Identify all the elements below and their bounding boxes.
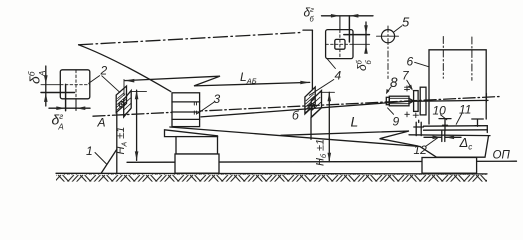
indicator stand 10 bbox=[439, 119, 451, 131]
svg-text:НА ±1: НА ±1 bbox=[115, 127, 129, 155]
guideway break fold upper bbox=[281, 131, 418, 146]
leader 2 bbox=[89, 76, 120, 93]
svg-text:8: 8 bbox=[390, 75, 398, 90]
svg-text:7: 7 bbox=[402, 69, 410, 83]
dim delta-A-vert bbox=[44, 66, 48, 106]
delta-c offset ticks bbox=[442, 131, 445, 142]
faceplate bbox=[420, 87, 426, 115]
svg-text:L: L bbox=[351, 114, 359, 130]
target A plate back bbox=[124, 91, 132, 118]
leader 1 bbox=[95, 153, 107, 165]
leader 11 bbox=[456, 114, 462, 125]
test mandrel 8 bbox=[386, 96, 413, 106]
telescope base on ground bbox=[175, 154, 219, 173]
bridge straightedge bar bbox=[424, 126, 488, 133]
clamp mark above flange bbox=[405, 86, 410, 91]
telescope 3 body bbox=[172, 93, 200, 127]
optical axis dash-dot bbox=[93, 97, 500, 117]
machine foundation block bbox=[422, 158, 477, 174]
cross of mandrel axis in view bbox=[344, 16, 370, 42]
target B plate back bbox=[311, 91, 321, 118]
bridge left bracket bbox=[414, 120, 424, 135]
leader 7 bbox=[407, 80, 413, 91]
svg-text:Δс: Δс bbox=[459, 135, 473, 152]
stub to vertical bbox=[303, 29, 312, 31]
leader 12 bbox=[426, 138, 438, 146]
L_AB dimension line with break bbox=[125, 76, 310, 86]
dim delta-B-vert right bbox=[364, 22, 368, 54]
svg-text:А: А bbox=[97, 116, 106, 130]
clamp mark below cone bbox=[405, 112, 410, 117]
target B plate front bbox=[305, 87, 315, 114]
svg-text:12: 12 bbox=[414, 143, 428, 157]
svg-text:δбА: δбА bbox=[27, 70, 48, 84]
dim H_B bbox=[320, 92, 335, 161]
headstock centerline 2 bbox=[471, 37, 473, 80]
svg-text:δгА: δгА bbox=[52, 112, 64, 132]
machine bed bbox=[409, 135, 490, 157]
dim H_A bbox=[130, 90, 146, 160]
leveling wedge under telescope bbox=[165, 130, 218, 137]
sight line bbox=[201, 100, 488, 117]
target A plate front bbox=[116, 86, 126, 113]
spindle end tick bbox=[485, 94, 487, 102]
svg-text:Нб ±1: Нб ±1 bbox=[315, 139, 329, 166]
dim delta-B-horiz top bbox=[322, 14, 374, 18]
svg-text:9: 9 bbox=[393, 115, 400, 129]
target A stand rod 1 bbox=[116, 113, 118, 173]
headstock centerline 1 bbox=[442, 37, 444, 79]
svg-text:ОП: ОП bbox=[493, 150, 511, 162]
telescope stand column bbox=[176, 137, 218, 154]
dim delta-A-horiz bbox=[49, 106, 90, 110]
viewbox 2 (view of target A) bbox=[41, 70, 90, 111]
leader 4 bbox=[309, 59, 335, 96]
machine headstock box 6 bbox=[429, 50, 486, 124]
svg-text:б: б bbox=[292, 109, 300, 123]
svg-text:LАБ: LАБ bbox=[240, 70, 257, 86]
svg-text:11: 11 bbox=[459, 103, 471, 117]
leader 5 bbox=[394, 26, 402, 32]
leader 8 bbox=[386, 87, 391, 94]
target A cross in view bbox=[41, 84, 75, 111]
indicator stand 11 bbox=[472, 119, 484, 126]
svg-text:6: 6 bbox=[407, 55, 414, 69]
svg-text:δгб: δгб bbox=[304, 5, 315, 24]
beam diagonal bbox=[79, 45, 171, 92]
viewbox 4 (view of target B) bbox=[326, 16, 370, 59]
section view circle 5 bbox=[377, 26, 399, 79]
dim delta-c bbox=[424, 136, 461, 140]
leader 6 bbox=[415, 62, 429, 67]
svg-text:1: 1 bbox=[86, 144, 93, 158]
svg-text:2: 2 bbox=[100, 64, 108, 78]
clamp mark below flange bbox=[413, 113, 418, 118]
vertical link to target B bbox=[311, 30, 313, 90]
svg-text:10: 10 bbox=[433, 104, 447, 118]
target A stand brace bbox=[101, 149, 117, 174]
spindle flange 7 bbox=[414, 91, 419, 112]
target A bullseye bbox=[119, 102, 125, 108]
top dash-dot centerline bbox=[79, 32, 303, 44]
reference plane line OP bbox=[127, 161, 517, 162]
guideway line long bbox=[170, 127, 420, 147]
target B bullseye bbox=[309, 104, 315, 110]
leader 10 bbox=[441, 115, 447, 120]
svg-text:3: 3 bbox=[214, 92, 221, 106]
svg-text:5: 5 bbox=[402, 15, 410, 30]
svg-text:δбб: δбб bbox=[355, 59, 374, 71]
ground bbox=[56, 173, 487, 181]
target B support rod bbox=[310, 118, 312, 140]
svg-text:4: 4 bbox=[335, 69, 342, 83]
leader 9 bbox=[388, 108, 394, 114]
leader 3 bbox=[198, 102, 216, 114]
extension line at A bbox=[123, 79, 125, 95]
